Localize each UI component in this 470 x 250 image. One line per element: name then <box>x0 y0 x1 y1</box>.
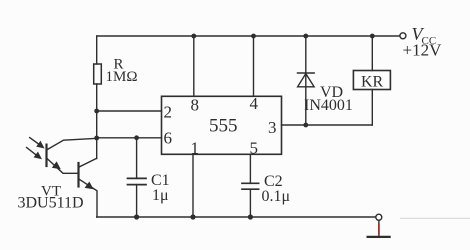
svg-text:1μ: 1μ <box>152 187 169 204</box>
svg-text:2: 2 <box>164 103 173 122</box>
svg-text:8: 8 <box>191 96 200 115</box>
svg-text:555: 555 <box>209 116 238 137</box>
svg-text:KR: KR <box>361 74 384 91</box>
svg-text:0.1μ: 0.1μ <box>262 188 291 205</box>
svg-text:1MΩ: 1MΩ <box>106 69 138 85</box>
svg-text:1: 1 <box>191 139 200 158</box>
svg-text:IN4001: IN4001 <box>304 97 353 114</box>
svg-text:3DU511D: 3DU511D <box>18 195 84 212</box>
svg-text:6: 6 <box>164 129 173 148</box>
svg-text:4: 4 <box>250 94 259 113</box>
svg-text:3: 3 <box>268 118 277 137</box>
svg-text:+12V: +12V <box>403 41 443 60</box>
svg-text:5: 5 <box>250 139 259 158</box>
